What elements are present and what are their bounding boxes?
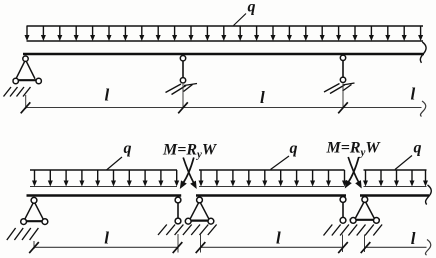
simply supported beam of span 1 [27, 194, 182, 196]
dimension extension line below support F [200, 234, 202, 253]
support B: intermediate link (roller) support of top beam [180, 56, 185, 84]
dimension extension line below support A [25, 95, 27, 109]
support D: pinned-roller support at left end of span 1 [21, 197, 48, 224]
dimension tick at support G [338, 242, 348, 253]
distributed load q on span 3 (bottom figure) [363, 170, 428, 187]
ground hatching under support C [324, 83, 355, 94]
dimension tick at support H [361, 242, 371, 253]
leader line for q on span 1 [107, 157, 123, 170]
svg-text:l: l [411, 84, 416, 103]
dimension line of top figure [26, 107, 422, 109]
svg-text:q: q [124, 140, 132, 157]
ground hatching under support D [7, 228, 39, 240]
ground hatching under support A [4, 87, 31, 97]
distributed load q on continuous beam (top figure) [25, 26, 424, 41]
leader line for q on span 2 [271, 156, 290, 170]
dimension tick at support C [338, 102, 348, 113]
support G: link support at right end of span 2 [340, 197, 346, 224]
dimension line of span 3 (bottom figure) [366, 246, 427, 248]
svg-text:q: q [290, 140, 298, 157]
dimension extension line below support C [342, 84, 344, 109]
moment arrow curving to end of span 2 (second junction) [345, 157, 359, 189]
ground hatching under supports E and F [158, 225, 217, 236]
support F: pinned-roller support at left end of span 2 [185, 197, 214, 224]
moment arrow curving to start of span 2 (first junction) [183, 158, 197, 190]
distributed load q on span 2 (bottom figure) [199, 170, 348, 187]
moment arrow curving to start of span 3 (second junction) [348, 157, 362, 189]
break mark at right end of top beam [420, 42, 426, 63]
support C: intermediate link (roller) support of top beam [340, 55, 345, 82]
support H: pinned-roller support at left end of span 3 [350, 197, 381, 224]
svg-text:q: q [414, 139, 422, 156]
svg-text:l: l [276, 228, 281, 247]
break mark at right end of bottom dimension line [425, 240, 430, 256]
break mark at right end of top dimension line [420, 101, 425, 117]
ground hatching under supports G and H [324, 225, 383, 236]
svg-text:l: l [411, 229, 416, 248]
moment arrow curving to end of span 1 (first junction) [180, 158, 194, 190]
svg-text:l: l [105, 85, 110, 104]
svg-text:l: l [260, 88, 265, 107]
leader line for load label q (top figure) [234, 14, 247, 26]
dimension tick at support F [196, 242, 206, 253]
svg-text:q: q [248, 0, 256, 15]
dimension extension line below support D [33, 241, 35, 249]
dimension tick at support D [29, 242, 39, 253]
leader line for q on span 3 [395, 156, 412, 170]
dimension extension line below support E [177, 234, 179, 253]
dimension extension line below support H [364, 235, 366, 253]
simply supported beam of span 3 [360, 194, 429, 196]
dimension extension line below support G [342, 235, 344, 253]
simply supported beam of span 2 [196, 194, 346, 196]
support A: pinned-roller support at left end of top beam [13, 56, 42, 84]
dimension extension line below support B [182, 84, 184, 109]
svg-text:M=RyW: M=RyW [326, 140, 382, 159]
dimension tick at support B [178, 102, 188, 113]
svg-text:l: l [104, 228, 109, 247]
support E: link support at right end of span 1 [175, 197, 181, 224]
dimension tick at support E [173, 242, 183, 253]
break mark at right end of bottom beam [426, 185, 432, 205]
ground hatching under support B [166, 84, 198, 95]
svg-text:M=RyW: M=RyW [162, 142, 218, 161]
distributed load q on span 1 (bottom figure) [30, 170, 179, 187]
dimension line of span 1 (bottom figure) [34, 246, 178, 248]
dimension line of span 2 (bottom figure) [201, 246, 344, 248]
continuous beam (top figure) [23, 53, 424, 56]
dimension tick at support A [21, 102, 31, 113]
